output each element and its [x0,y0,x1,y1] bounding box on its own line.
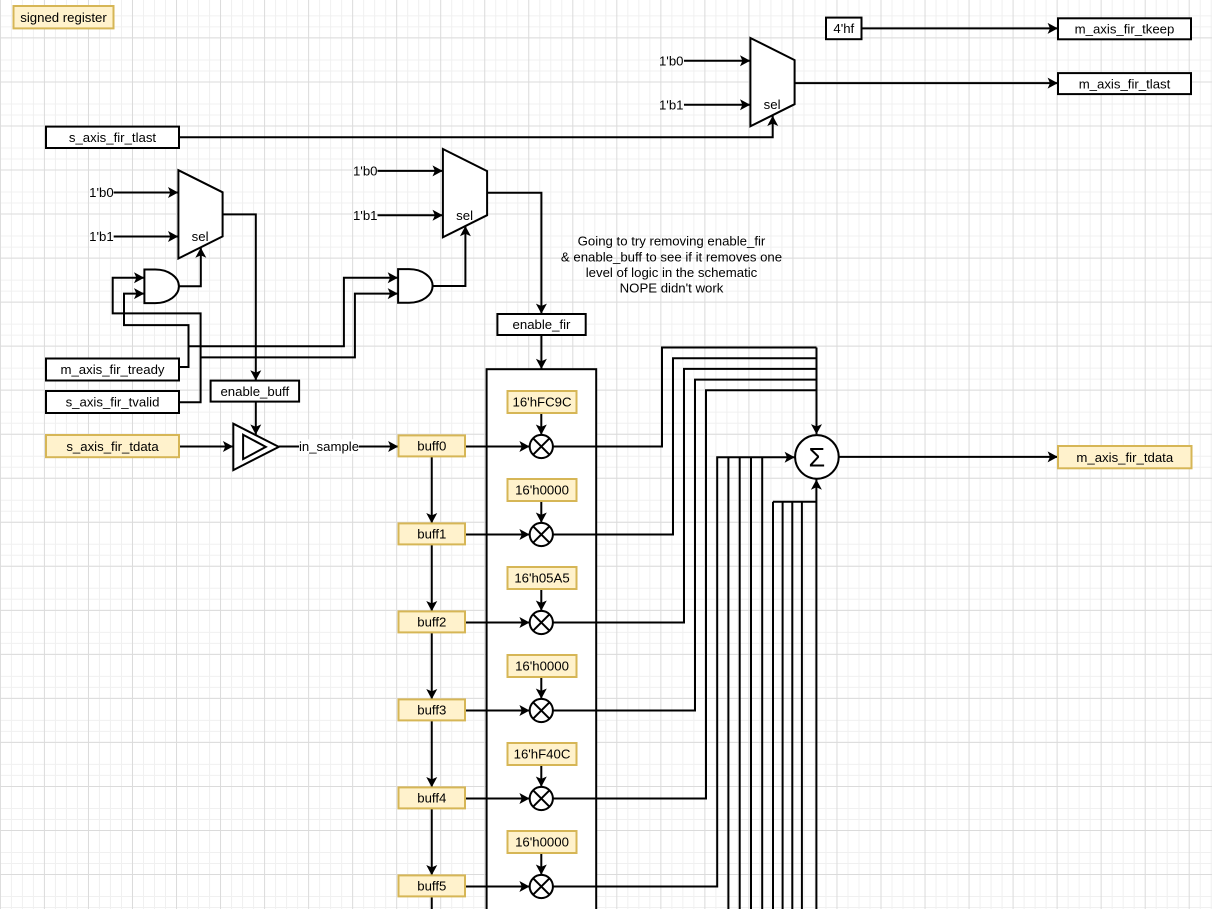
svg-text:s_axis_fir_tdata: s_axis_fir_tdata [66,439,159,454]
svg-text:sel: sel [456,208,473,223]
svg-text:signed register: signed register [20,10,107,25]
svg-text:16'h0000: 16'h0000 [515,483,569,498]
svg-text:buff4: buff4 [417,791,446,806]
svg-text:in_sample: in_sample [299,439,359,454]
svg-text:m_axis_fir_tdata: m_axis_fir_tdata [1076,450,1173,465]
svg-text:& enable_buff to see if it rem: & enable_buff to see if it removes one [561,249,782,264]
svg-text:NOPE didn't work: NOPE didn't work [620,281,724,296]
svg-text:s_axis_fir_tlast: s_axis_fir_tlast [69,130,157,145]
svg-text:buff1: buff1 [417,527,446,542]
svg-text:1'b1: 1'b1 [353,208,378,223]
svg-text:m_axis_fir_tready: m_axis_fir_tready [60,362,164,377]
svg-text:1'b0: 1'b0 [353,164,378,179]
svg-text:enable_buff: enable_buff [220,384,289,399]
svg-text:buff3: buff3 [417,703,446,718]
svg-text:16'h05A5: 16'h05A5 [514,571,569,586]
svg-text:16'h0000: 16'h0000 [515,659,569,674]
svg-text:4'hf: 4'hf [833,21,854,36]
svg-text:1'b0: 1'b0 [89,185,114,200]
svg-text:sel: sel [764,97,781,112]
svg-text:16'h0000: 16'h0000 [515,835,569,850]
svg-text:sel: sel [192,229,209,244]
svg-text:m_axis_fir_tkeep: m_axis_fir_tkeep [1075,22,1175,37]
svg-text:16'hFC9C: 16'hFC9C [513,395,572,410]
svg-text:buff0: buff0 [417,439,446,454]
svg-text:Going to try removing enable_f: Going to try removing enable_fir [578,234,766,249]
svg-text:m_axis_fir_tlast: m_axis_fir_tlast [1079,76,1171,91]
svg-text:s_axis_fir_tvalid: s_axis_fir_tvalid [66,395,160,410]
svg-text:1'b1: 1'b1 [89,229,114,244]
svg-text:Σ: Σ [809,442,826,472]
svg-text:16'hF40C: 16'hF40C [514,747,571,762]
svg-text:buff2: buff2 [417,615,446,630]
svg-text:1'b1: 1'b1 [659,97,684,112]
svg-text:enable_fir: enable_fir [513,317,572,332]
svg-text:1'b0: 1'b0 [659,54,684,69]
svg-text:level of logic in the schemati: level of logic in the schematic [586,265,758,280]
svg-text:buff5: buff5 [417,879,446,894]
